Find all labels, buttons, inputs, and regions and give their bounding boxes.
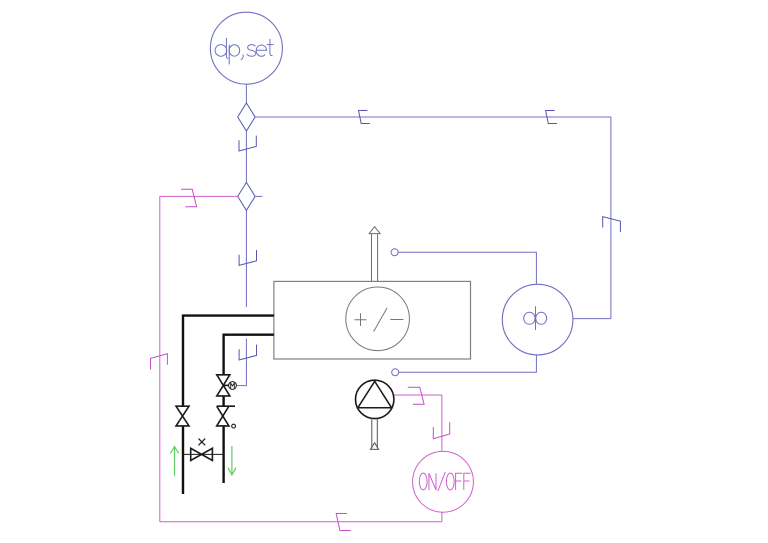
break symbol B4: [239, 136, 256, 151]
pump circle: [356, 380, 394, 418]
bypass line: [183, 453, 224, 455]
drain circle on valve: [232, 424, 236, 428]
break symbol B7: [181, 189, 197, 207]
break symbol B9: [408, 387, 424, 404]
break symbol B1 on top signal line: [359, 111, 370, 124]
shut-off valve on pipe 1: [176, 406, 189, 426]
motor actuator circle M: [229, 382, 237, 390]
break symbol B11: [336, 514, 351, 531]
stub right of diamond 2: [255, 195, 262, 197]
black pipe 1 (flow): [183, 316, 274, 494]
wire: diamond 2 down to motor valve: [245, 210, 247, 307]
controller circle dp,set: [210, 12, 282, 84]
green flow arrow up: [170, 447, 178, 477]
closed mark X: [199, 439, 206, 446]
wire: ON/OFF top up to pump line: [441, 395, 443, 451]
wire: dp,set circle to diamond node 1: [245, 84, 247, 103]
lower pressure tap circle: [392, 369, 399, 376]
flow arrow above unit: [369, 227, 380, 282]
wire: upper tap to dp circle top: [398, 252, 536, 284]
break symbol B2 on top signal line: [546, 111, 557, 124]
black pipe 2 (return): [224, 335, 274, 483]
break symbol B6: [239, 345, 256, 360]
sensor circle dp: [502, 284, 573, 355]
wire: up into ON/OFF bottom: [441, 512, 443, 522]
break symbol B5: [239, 250, 256, 265]
bypass valve: [191, 448, 213, 460]
node diamond 1: [238, 103, 255, 131]
motor valve on pipe 2: [217, 375, 230, 396]
wire: diamond 1 to diamond 2: [245, 131, 247, 182]
break symbol B8: [151, 354, 168, 370]
unit rectangle: [274, 281, 471, 359]
label +/-: [354, 308, 403, 332]
wire: right vertical to dp circle: [573, 318, 611, 320]
break symbol B10: [433, 422, 449, 438]
wire: magenta from diamond 2 to left vertical: [160, 195, 238, 197]
pipe below pump: [370, 418, 378, 449]
wire: magenta left vertical: [159, 196, 161, 521]
label dp,set: [215, 38, 274, 65]
label dp: [524, 306, 547, 330]
wire: blue stub from M actuator: [235, 385, 237, 387]
wire: lower tap to dp circle bottom: [399, 355, 537, 372]
green flow arrow down: [228, 446, 236, 475]
label ON/OFF: [419, 472, 470, 491]
break symbol B3 on right vertical: [603, 217, 621, 232]
node diamond 2: [238, 182, 255, 210]
shut-off valve on pipe 2: [217, 406, 235, 426]
wire: magenta bottom horizontal: [160, 521, 442, 523]
pump triangle: [358, 381, 392, 408]
wire: to pump: [393, 394, 442, 396]
ON/OFF circle: [413, 451, 474, 512]
+/- circle: [346, 287, 410, 351]
wire: diamond 1 to right vertical (top signal line): [255, 116, 611, 118]
upper pressure tap circle: [391, 249, 398, 256]
wire: right vertical down to dp sensor level: [610, 117, 612, 319]
